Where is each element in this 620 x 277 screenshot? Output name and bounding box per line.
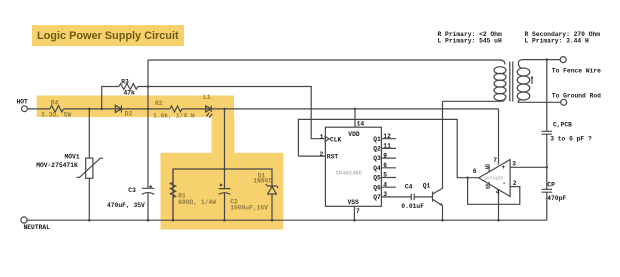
svg-text:Logic Power Supply Circuit: Logic Power Supply Circuit (37, 30, 179, 42)
svg-text:3: 3 (512, 161, 516, 168)
svg-text:L Primary: 545 uH: L Primary: 545 uH (438, 38, 502, 45)
transformer core (510, 62, 513, 102)
node junction rail/C3 (147, 108, 150, 111)
svg-text:C,PCB: C,PCB (553, 121, 572, 128)
svg-text:To Fence Wire: To Fence Wire (552, 67, 601, 74)
LED L1 (206, 106, 212, 112)
diode D2 (115, 105, 121, 112)
svg-text:470uF, 35V: 470uF, 35V (107, 202, 145, 209)
wire op-amp V+ pin 7 (498, 109, 500, 165)
svg-text:Q7: Q7 (373, 194, 381, 201)
svg-text:CLK: CLK (330, 136, 342, 143)
highlight body (161, 153, 284, 230)
svg-text:3: 3 (383, 191, 387, 198)
svg-text:4: 4 (496, 189, 500, 196)
svg-text:11: 11 (383, 143, 391, 150)
svg-text:2: 2 (320, 151, 324, 158)
node junction MOV (88, 108, 91, 111)
svg-text:R3: R3 (121, 79, 129, 86)
wire secondary top to fence (523, 59, 560, 61)
svg-text:NEUTRAL: NEUTRAL (24, 224, 51, 231)
IC U1 counter (325, 127, 381, 206)
wire vertical C3 line (147, 60, 149, 220)
varistor MOV1 (88, 109, 90, 220)
svg-text:To Ground Rod: To Ground Rod (552, 93, 601, 100)
resistor R2 (170, 106, 182, 112)
svg-text:Q4: Q4 (373, 165, 381, 172)
phasing arrow (531, 78, 533, 85)
svg-text:MOV1: MOV1 (65, 153, 80, 160)
wire VDD pin 14 (354, 109, 356, 127)
transformer T1 primary (500, 60, 505, 65)
svg-text:3 to 6 pF ?: 3 to 6 pF ? (550, 136, 592, 143)
node HOT terminal (22, 106, 28, 112)
svg-text:9: 9 (383, 152, 387, 159)
wire neutral rail (27, 219, 547, 221)
svg-text:C4: C4 (405, 184, 413, 191)
svg-text:6: 6 (383, 162, 387, 169)
svg-text:CD4024BE: CD4024BE (336, 170, 363, 177)
svg-text:Q1: Q1 (423, 182, 431, 189)
wire stem vertical (224, 109, 226, 220)
svg-text:Q6: Q6 (373, 184, 381, 191)
svg-text:1: 1 (485, 183, 489, 190)
svg-text:470pF: 470pF (547, 195, 566, 202)
svg-text:5: 5 (383, 172, 387, 179)
capacitor C4 (411, 194, 432, 200)
svg-text:1N965: 1N965 (253, 177, 272, 184)
IC output pins Q1-Q7 (381, 139, 411, 197)
svg-text:47k: 47k (124, 89, 136, 96)
svg-text:1000uF,16V: 1000uF,16V (230, 204, 268, 211)
svg-text:Q2: Q2 (373, 146, 381, 153)
node junction R3 left (100, 108, 103, 111)
svg-text:UA741CP: UA741CP (484, 176, 504, 182)
op-amp pin 2 feedback (468, 178, 520, 205)
wire primary bottom (443, 100, 502, 102)
op-amp pin 3 (510, 166, 547, 168)
op-amp U2 (479, 160, 510, 197)
svg-text:HOT: HOT (17, 98, 29, 105)
svg-text:CP: CP (547, 181, 555, 188)
svg-text:690Ω, 1/4W: 690Ω, 1/4W (178, 199, 216, 206)
svg-text:VSS: VSS (348, 199, 360, 206)
svg-text:0.01uF: 0.01uF (401, 203, 424, 210)
svg-text:7: 7 (356, 208, 360, 215)
svg-text:14: 14 (357, 121, 365, 128)
svg-text:D2: D2 (125, 110, 133, 117)
wire secondary bottom to ground rod (518, 101, 561, 103)
svg-text:R4: R4 (51, 99, 59, 106)
wire main rail (27, 108, 498, 110)
node fence terminal (560, 57, 566, 63)
svg-text:L1: L1 (203, 94, 211, 101)
svg-text:Q5: Q5 (373, 175, 381, 182)
svg-text:MOV-275471K: MOV-275471K (36, 162, 78, 169)
svg-text:C3: C3 (128, 187, 136, 194)
svg-text:1.6k, 1/4 W: 1.6k, 1/4 W (153, 113, 195, 120)
node ground rod terminal (561, 99, 567, 105)
node junction rail bottoms (88, 219, 91, 222)
svg-text:4: 4 (383, 181, 387, 188)
capacitor C_PCB (542, 60, 553, 168)
wire VSS pin 7 (353, 206, 355, 220)
resistor R4 (50, 106, 64, 112)
wire op-amp V- pin 4 (498, 191, 500, 221)
svg-text:5: 5 (485, 164, 489, 171)
node junction loop top (223, 168, 226, 171)
capacitor C3 (142, 188, 154, 194)
wire R3 branch (102, 87, 326, 139)
capacitor C2 (219, 189, 231, 195)
resistor R1 (172, 169, 174, 220)
transformer T1 secondary (518, 60, 523, 69)
svg-text:6: 6 (473, 168, 477, 175)
svg-text:Q1: Q1 (373, 136, 381, 143)
svg-text:R2: R2 (155, 100, 163, 107)
node NEUTRAL terminal (21, 217, 27, 223)
capacitor CP (542, 167, 553, 220)
svg-text:L Primary: 3.44 H: L Primary: 3.44 H (525, 38, 589, 45)
op-amp offset pins 5 and 1 (488, 164, 490, 188)
svg-text:2: 2 (513, 180, 517, 187)
svg-text:-: - (502, 180, 506, 187)
resistor R3 (119, 84, 138, 90)
svg-text:1: 1 (320, 133, 324, 140)
svg-text:7: 7 (493, 157, 497, 164)
highlight main band (37, 96, 234, 118)
transistor Q1 (432, 192, 434, 202)
node junction stem (223, 108, 226, 111)
svg-text:Q3: Q3 (373, 155, 381, 162)
svg-text:3.3Ω, 5W: 3.3Ω, 5W (41, 112, 71, 119)
wire top horizontal (148, 59, 502, 61)
highlight title band (32, 25, 184, 46)
svg-text:+: + (502, 164, 506, 171)
wire RST/feedback (298, 119, 478, 177)
svg-text:RST: RST (327, 153, 339, 160)
svg-text:VDD: VDD (348, 131, 360, 138)
wire loop top (173, 169, 272, 220)
highlight stem (212, 116, 235, 154)
node junction R3/vertical (147, 85, 150, 88)
svg-text:12: 12 (383, 133, 391, 140)
zener D1 (266, 184, 279, 188)
